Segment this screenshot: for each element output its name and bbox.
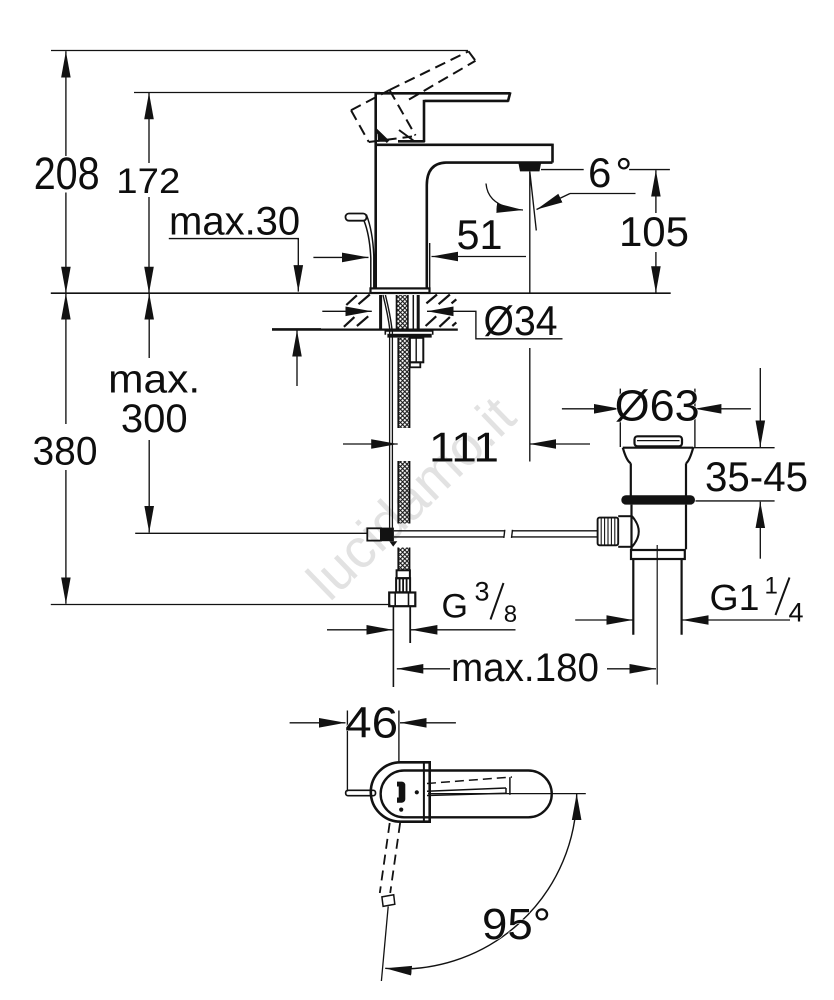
- dashed handle raised: base top-left edge: [351, 51, 476, 142]
- 6 deg reference line: [541, 169, 584, 171]
- aerator: [519, 164, 542, 172]
- dashed base bottom edge: [369, 137, 412, 143]
- clamp lower wedge: [389, 541, 397, 546]
- cartridge black mark: [397, 782, 405, 803]
- dim max.300 line: [148, 293, 150, 358]
- svg-text:Ø63: Ø63: [615, 382, 700, 431]
- svg-text:35-45: 35-45: [705, 453, 808, 500]
- horizontal rod right segment: [512, 530, 598, 532]
- check valve step: [410, 362, 420, 367]
- dim 35-45 bottom line: [696, 500, 775, 502]
- spout top edge: [375, 144, 553, 147]
- base plate: [371, 288, 430, 293]
- dim 380 line: [65, 293, 67, 424]
- lever bottom edge: [425, 100, 509, 103]
- radius line 95 deg: [381, 906, 388, 981]
- handle base right edge: [423, 100, 426, 142]
- svg-text:105: 105: [619, 208, 689, 255]
- dashed base diagonal: [390, 90, 416, 136]
- pull rod below deck: [389, 330, 391, 528]
- water stream vertical line: [529, 172, 531, 294]
- svg-text:4: 4: [789, 598, 804, 628]
- svg-text:8: 8: [504, 601, 517, 628]
- dim 172 line: [148, 93, 150, 163]
- dashed lever lowered position: [380, 823, 390, 893]
- dashed lever lower edge: [409, 61, 476, 100]
- pull rod knob: [346, 214, 367, 221]
- water stream 6 deg slant: [530, 172, 537, 231]
- handle inner solid diagonal: [399, 130, 414, 141]
- dim 51 extension: [429, 243, 431, 291]
- popup waste upper body sides: [630, 463, 632, 495]
- handle lever top edge: [375, 92, 511, 95]
- spout bottom and body right curve: [427, 163, 553, 289]
- svg-text:111: 111: [429, 424, 499, 471]
- faucet body outline: [375, 92, 553, 289]
- svg-text:95°: 95°: [482, 900, 551, 949]
- stream extension below deck: [529, 348, 531, 462]
- dim 111 left arrow: [343, 443, 398, 445]
- pull rod inner curve: [366, 215, 374, 290]
- rod adapter piece: [618, 516, 639, 547]
- dim 51 arrow: [432, 256, 527, 258]
- svg-text:172: 172: [116, 162, 180, 201]
- popup waste lower body sides: [632, 505, 687, 550]
- dim Ø63 arrows: [562, 408, 620, 410]
- svg-text:Ø34: Ø34: [484, 297, 558, 344]
- rod knurled knob: [598, 518, 619, 546]
- svg-text:max.: max.: [108, 358, 200, 402]
- check valve block: [410, 338, 423, 363]
- handle base bottom-left slant: [376, 130, 388, 142]
- swivel arc arrow: [486, 184, 523, 211]
- extension line rod lever (max300 ref): [135, 532, 367, 534]
- svg-text:51: 51: [457, 211, 503, 258]
- G3/8 pipe: [392, 606, 394, 687]
- max.180 right arrow: [607, 668, 656, 670]
- hose crimp ribbed section: [396, 578, 410, 592]
- svg-text:G: G: [442, 588, 468, 626]
- deck top line: [51, 292, 671, 294]
- dim Ø34 arrows: [322, 310, 372, 312]
- max.30 lower arrow (deck underside): [296, 330, 298, 386]
- hose crosshatch upper segment: [398, 338, 409, 428]
- extension line bottom (380 ref): [51, 604, 391, 606]
- popup waste flange: [623, 448, 693, 496]
- top view inner vertical line: [423, 763, 425, 821]
- mounting washer: [385, 331, 432, 335]
- pull rod in hole curve: [383, 295, 390, 330]
- body left edge: [374, 92, 377, 289]
- screw dot right: [415, 790, 419, 794]
- svg-text:max.180: max.180: [451, 646, 599, 690]
- pull rod tab top view: [346, 790, 376, 795]
- bottom view extension lines: [346, 711, 348, 792]
- popup waste centerline: [656, 545, 658, 685]
- popup waste O-ring: [621, 495, 695, 504]
- svg-text:3: 3: [475, 576, 490, 606]
- top view lever capsule: [381, 771, 552, 818]
- svg-text:300: 300: [121, 397, 188, 441]
- pull rod outer curve: [364, 221, 371, 289]
- rod clamp open box: [367, 528, 381, 540]
- lever tip box lowered: [382, 895, 395, 907]
- dashed base left edge: [351, 110, 369, 142]
- hose crosshatch lower segment: [398, 548, 409, 571]
- deck hatch right: [426, 295, 457, 327]
- dim 46 arrows: [290, 722, 346, 724]
- 6 deg leader arrow: [570, 193, 636, 195]
- svg-text:208: 208: [34, 148, 100, 199]
- popup waste tailpipe: [633, 559, 681, 635]
- dim 35-45 bottom arrow: [759, 502, 761, 559]
- popup waste collar: [631, 550, 685, 559]
- top view centerline: [428, 793, 586, 795]
- svg-text:max.30: max.30: [169, 200, 300, 244]
- svg-text:G1: G1: [710, 577, 760, 618]
- hose crimp collar: [397, 570, 410, 578]
- dim 105 line: [655, 170, 657, 213]
- top view body right edge: [428, 761, 431, 823]
- dim 35-45 top arrow: [759, 368, 761, 447]
- deck hatch left: [344, 295, 370, 327]
- max.30 arrow to pull rod: [313, 256, 368, 258]
- handle base bottom edge: [398, 140, 425, 143]
- lever hidden edge dashed: [427, 777, 512, 784]
- dim G3/8 arrows: [327, 629, 393, 631]
- rod clamp black block: [381, 528, 394, 542]
- max.180 left arrow: [397, 668, 450, 670]
- svg-text:380: 380: [33, 430, 98, 474]
- top view body outline: [371, 762, 430, 821]
- dim Ø63 extension lines: [619, 389, 621, 447]
- extension line 172 ref: [134, 92, 380, 94]
- svg-text:6°: 6°: [588, 149, 632, 196]
- deck bottom line: [272, 328, 458, 330]
- dim G1 1/4 arrows: [575, 619, 633, 621]
- screw dot bottom: [399, 808, 403, 812]
- max.30 underline leader: [169, 239, 298, 240]
- extension line top (208 ref): [51, 50, 468, 52]
- popup waste cap: [635, 436, 683, 446]
- hose crosshatch in hole: [397, 295, 414, 330]
- 95 deg arc: [385, 794, 577, 969]
- hose crosshatch mid segment: [398, 461, 409, 524]
- G3/8 hex nut: [389, 593, 415, 607]
- dim 35-45 top line: [693, 447, 774, 449]
- spout right edge: [551, 144, 554, 163]
- lever right end slant: [508, 92, 510, 101]
- svg-text:46: 46: [345, 699, 398, 748]
- dashed lever tip: [469, 51, 476, 61]
- shank left wall: [379, 295, 382, 330]
- horizontal rod left segment: [394, 530, 504, 532]
- rod break marks: [504, 530, 505, 538]
- dim 208 line: [65, 51, 67, 156]
- dim 111 right arrow: [530, 443, 591, 445]
- dashed lever upper edge: [390, 51, 469, 90]
- lever inner solid edges: [427, 788, 506, 791]
- shank right wall: [417, 295, 420, 330]
- handle joint dark wedge: [378, 133, 388, 142]
- Ø34 leader: [449, 311, 563, 339]
- svg-text:1: 1: [765, 573, 778, 600]
